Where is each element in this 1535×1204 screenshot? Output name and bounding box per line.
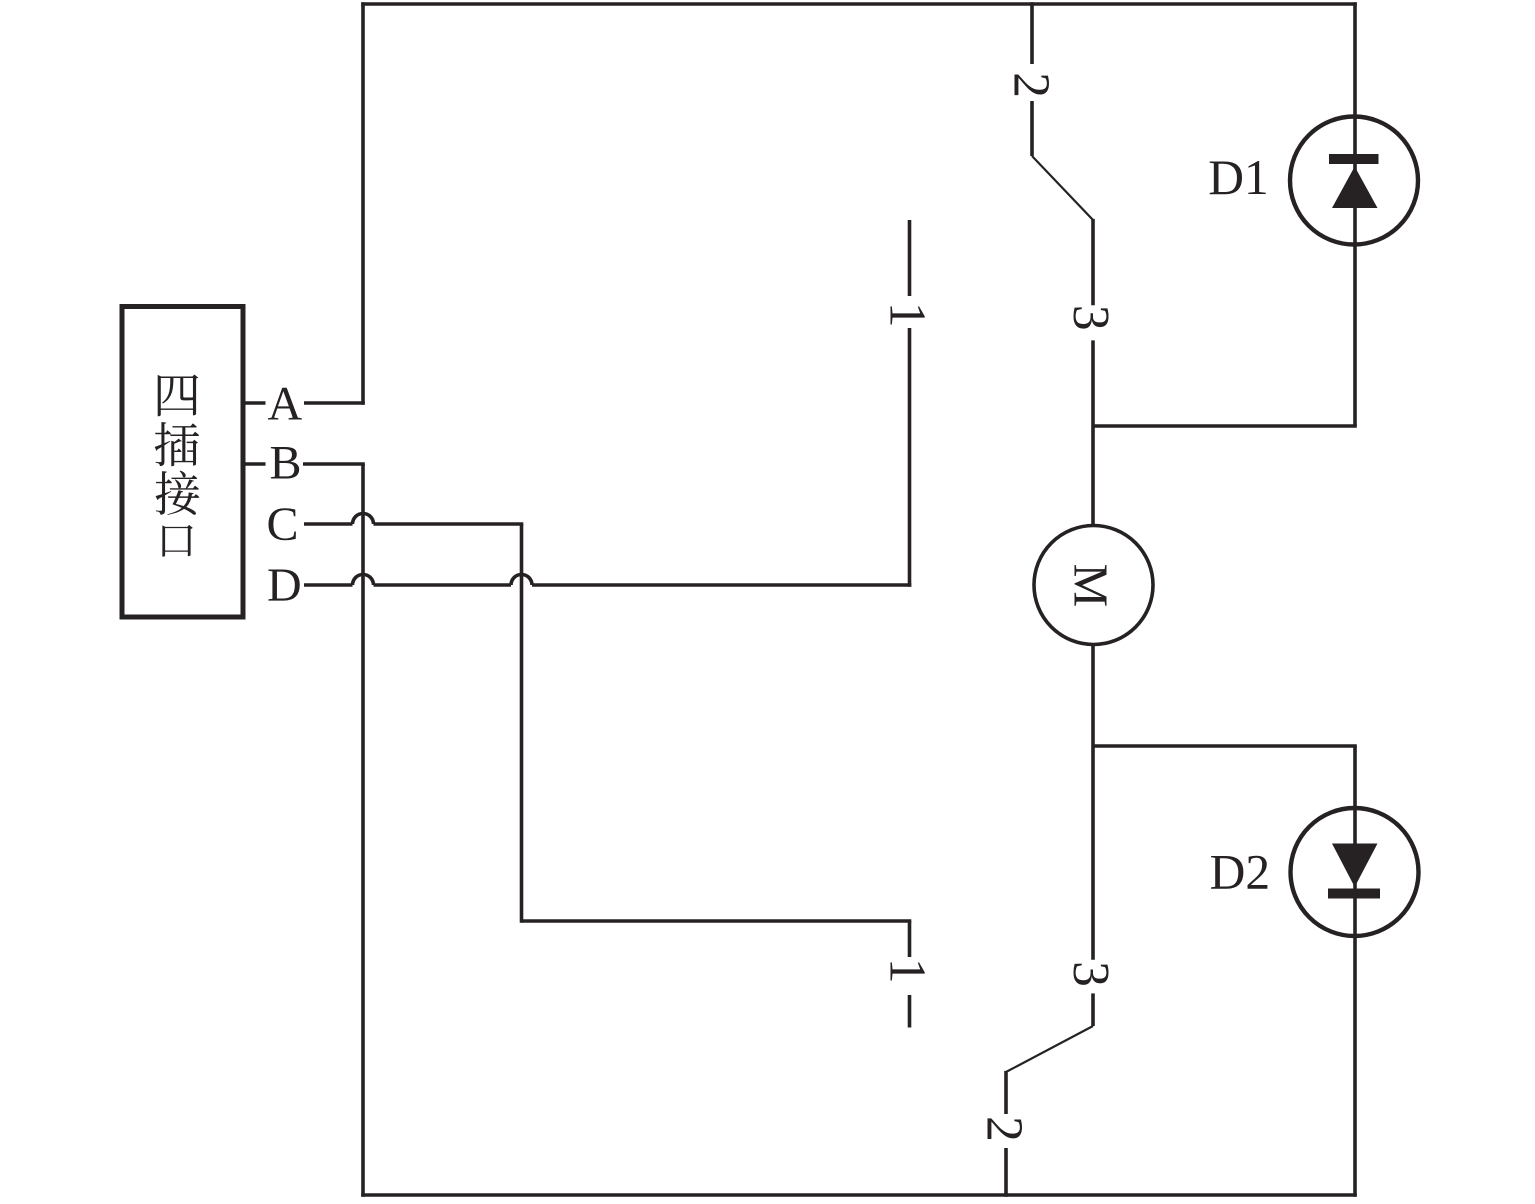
svg-text:1: 1	[879, 958, 936, 984]
wire C branch lower horizontal	[522, 919, 912, 923]
switch S2 contact-2 upper lead	[1004, 1071, 1008, 1114]
svg-text:1: 1	[878, 302, 935, 328]
svg-text:2: 2	[1003, 72, 1060, 98]
wire from C (left of hop)	[304, 522, 353, 526]
diode D2 cathode bar	[1328, 889, 1380, 899]
wire contact-3 down to motor	[1091, 340, 1095, 527]
wire motor bottom to switch S2	[1091, 645, 1095, 960]
wire top bus	[361, 2, 1357, 6]
pin stub B	[243, 462, 266, 466]
wire bottom bus	[361, 1193, 1357, 1197]
svg-text:A: A	[268, 377, 303, 430]
box label char 口	[162, 525, 192, 557]
wire C drop	[520, 524, 524, 923]
box label char 接	[156, 471, 200, 515]
wire B drop to bottom bus	[361, 464, 365, 1197]
svg-text:B: B	[270, 437, 302, 490]
wire from B to B drop	[303, 462, 365, 466]
switch S1 blade (diagonal)	[1032, 156, 1093, 220]
switch S1 contact-1 lead (upper)	[908, 328, 912, 587]
diode D1 cathode bar	[1329, 154, 1379, 164]
wire D2 top junction horizontal	[1093, 744, 1357, 748]
diode D2 circle	[1291, 808, 1419, 936]
diode D2 triangle (pointing down)	[1332, 844, 1378, 888]
diode D1 circle	[1290, 117, 1418, 245]
switch S1 contact-2 lower lead	[1030, 101, 1034, 156]
switch S1 contact-3 upper lead	[1091, 219, 1095, 305]
pin stub A	[243, 401, 266, 405]
switch S2 contact-2 lead to bottom bus	[1004, 1148, 1008, 1197]
box label char 插	[155, 422, 199, 466]
svg-text:D1: D1	[1208, 150, 1269, 205]
svg-text:M: M	[1064, 564, 1119, 608]
svg-text:D: D	[267, 559, 302, 612]
wire D to switch S1 lead	[532, 583, 911, 587]
switch S2 contact-1 lead (lower)	[908, 921, 912, 957]
switch S2 contact-1 tick (lower)	[908, 995, 912, 1028]
connector box 四插接口	[122, 307, 243, 618]
switch S2 contact-3 lower lead	[1091, 993, 1095, 1026]
motor M circle	[1034, 526, 1153, 645]
wire left riser from A to top bus	[361, 2, 365, 405]
svg-text:2: 2	[975, 1116, 1032, 1142]
svg-text:3: 3	[1062, 305, 1119, 331]
switch S1 contact-1 tick (upper)	[908, 220, 912, 296]
svg-text:D2: D2	[1210, 844, 1271, 899]
hop: D wire over C drop	[511, 575, 532, 586]
wire D1 bottom junction horizontal	[1093, 424, 1357, 428]
hop: D wire over B drop	[353, 575, 374, 586]
wire right riser (D1 branch top)	[1353, 2, 1357, 426]
wire from D (left of hops)	[304, 583, 353, 587]
svg-text:C: C	[267, 498, 299, 551]
switch S1 contact-2 lead from top bus	[1030, 2, 1034, 64]
wire D2 branch drop to bottom bus	[1353, 746, 1357, 1197]
box label char 四	[158, 374, 199, 416]
wire D middle segment	[374, 583, 512, 587]
wire C to C drop corner	[374, 522, 524, 526]
hop: C wire over B drop	[353, 514, 374, 525]
svg-text:3: 3	[1062, 961, 1119, 987]
switch S2 blade (diagonal)	[1006, 1026, 1093, 1072]
diode D1 triangle (pointing up)	[1332, 167, 1378, 209]
wire from A to left riser	[304, 401, 365, 405]
